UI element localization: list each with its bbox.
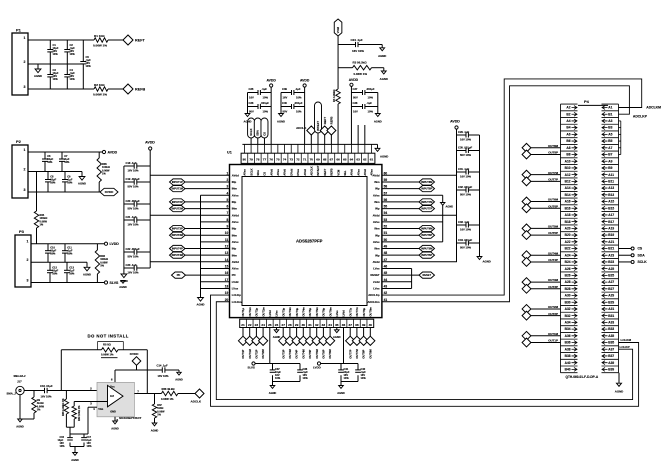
wire ground rail of cap column — [123, 166, 125, 274]
connector P4 right pin ladder — [602, 104, 619, 373]
svg-text:C16 .01μF: C16 .01μF — [40, 384, 53, 388]
svg-text:B36: B36 — [565, 341, 571, 345]
svg-text:A35: A35 — [608, 334, 614, 338]
wire AVDD to IC pin 76 — [270, 87, 272, 144]
svg-text:62: 62 — [363, 158, 367, 162]
svg-text:LCLKP: LCLKP — [620, 345, 630, 349]
svg-text:B22: B22 — [565, 247, 571, 251]
capacitor C26 .001uF — [248, 106, 259, 108]
svg-text:56: 56 — [384, 198, 388, 202]
svg-text:3: 3 — [227, 185, 229, 189]
svg-text:SDA: SDA — [256, 170, 260, 176]
svg-text:A12: A12 — [565, 173, 571, 177]
svg-text:INm: INm — [232, 187, 238, 191]
svg-text:17: 17 — [225, 278, 229, 282]
svg-text:ADCLKP: ADCLKP — [633, 114, 648, 118]
svg-text:10%: 10% — [67, 181, 73, 185]
ground AGND at P3 — [86, 262, 88, 267]
svg-text:3: 3 — [24, 85, 26, 89]
svg-text:1: 1 — [24, 36, 26, 40]
svg-text:26: 26 — [275, 323, 279, 327]
svg-text:C26: C26 — [249, 101, 254, 105]
svg-text:AVss: AVss — [232, 240, 239, 244]
node SCLK terminal at P4 — [619, 261, 632, 263]
capacitor C3 — [49, 64, 51, 75]
svg-text:CS: CS — [262, 132, 266, 136]
svg-text:C27: C27 — [353, 87, 358, 91]
svg-text:0.06W 1%: 0.06W 1% — [101, 352, 114, 356]
svg-text:16V 10%: 16V 10% — [128, 223, 140, 227]
svg-text:OUT7M: OUT7M — [355, 348, 359, 358]
node INPUT5M tag to IC pin 49 — [382, 248, 419, 250]
wire op-amp output — [134, 393, 161, 395]
node OUT7M diamond at IC pin 38 — [356, 328, 358, 337]
svg-text:B14: B14 — [565, 193, 571, 197]
resistor R36 between LVDD and SLVS rows — [96, 244, 98, 250]
svg-text:AVss: AVss — [232, 267, 239, 271]
node SLVS below IC — [252, 362, 255, 365]
svg-text:OUT1p: OUT1p — [241, 307, 245, 316]
svg-text:24: 24 — [261, 323, 265, 327]
wire AVDD rail to IC pin14 — [150, 261, 229, 263]
svg-text:.1μF: .1μF — [262, 87, 268, 91]
svg-text:A9: A9 — [608, 159, 612, 163]
svg-text:C32 .001μF: C32 .001μF — [458, 185, 473, 189]
svg-text:C39: C39 — [282, 87, 287, 91]
svg-text:50V: 50V — [353, 96, 358, 100]
svg-text:AGND: AGND — [337, 391, 345, 395]
wire IC pin 57 to right AGND bus — [382, 194, 443, 196]
svg-text:28: 28 — [288, 323, 292, 327]
svg-text:AVDD: AVDD — [349, 78, 359, 82]
capacitor C9 — [64, 172, 66, 180]
svg-text:REFB: REFB — [135, 88, 145, 92]
svg-text:AGND: AGND — [151, 429, 159, 433]
svg-text:14: 14 — [225, 258, 229, 262]
svg-text:RESET: RESET — [422, 273, 431, 277]
svg-text:72: 72 — [296, 158, 300, 162]
ground AGND at P1 pin2 — [37, 64, 39, 69]
wire IC pin 8 to AGND bus — [201, 221, 230, 223]
svg-text:OUT2p: OUT2p — [255, 307, 259, 316]
svg-text:INPUT8M: INPUT8M — [421, 180, 432, 184]
svg-text:OUT3P: OUT3P — [548, 285, 558, 289]
svg-text:AGND: AGND — [333, 335, 341, 339]
node INPUT2M tag to IC pin 6 — [170, 205, 186, 211]
svg-text:C18 .1μF: C18 .1μF — [126, 161, 138, 165]
node OUT5P diamond at P4 — [522, 231, 531, 240]
svg-text:AVdd: AVdd — [373, 213, 380, 217]
svg-text:75: 75 — [276, 158, 280, 162]
connector P4 right pin labels and arrows — [602, 106, 614, 372]
ground AGND for cap group 1 — [272, 382, 274, 386]
svg-text:23: 23 — [255, 323, 259, 327]
svg-text:1: 1 — [227, 171, 229, 175]
svg-text:A39: A39 — [608, 361, 614, 365]
svg-text:74: 74 — [283, 158, 287, 162]
svg-text:B31: B31 — [608, 314, 614, 318]
svg-text:CS: CS — [638, 247, 643, 251]
svg-text:R3 56.2kΩ: R3 56.2kΩ — [353, 61, 368, 65]
svg-text:OUT5M: OUT5M — [548, 224, 559, 228]
ground AGND at P2 — [81, 172, 83, 177]
svg-text:OUT8M: OUT8M — [368, 348, 372, 358]
svg-text:15: 15 — [225, 264, 229, 268]
svg-text:C20 .001μF: C20 .001μF — [126, 199, 141, 203]
capacitor C23 .1μF — [124, 267, 134, 269]
svg-text:B11: B11 — [608, 179, 614, 183]
svg-text:5: 5 — [227, 198, 229, 202]
svg-text:10%: 10% — [69, 271, 75, 275]
svg-text:20: 20 — [225, 298, 229, 302]
svg-text:B16: B16 — [565, 206, 571, 210]
svg-text:B33: B33 — [608, 327, 614, 331]
svg-text:16V 10%: 16V 10% — [158, 374, 170, 378]
ground AGND on right bus — [441, 203, 445, 206]
svg-text:76: 76 — [269, 158, 273, 162]
svg-text:10%: 10% — [52, 271, 58, 275]
wire P2 pin2 to P3 with resistor R34 — [36, 172, 38, 212]
svg-text:DVDD: DVDD — [130, 352, 139, 356]
svg-text:J17: J17 — [17, 380, 22, 384]
capacitor C39 .1uF — [281, 92, 292, 94]
node CS terminal at P4 — [619, 248, 632, 250]
capacitor C24 .1uF — [338, 44, 355, 46]
node INPUT1P tag to IC pin 2 — [170, 179, 186, 185]
svg-text:22: 22 — [248, 323, 252, 327]
svg-text:INp: INp — [232, 227, 237, 231]
svg-text:10%: 10% — [368, 96, 374, 100]
svg-text:Vbb: Vbb — [98, 407, 103, 411]
svg-text:REFT: REFT — [323, 168, 327, 175]
svg-text:LCLKM: LCLKM — [621, 338, 632, 342]
svg-text:77: 77 — [263, 158, 267, 162]
svg-text:U1: U1 — [227, 151, 232, 155]
svg-text:10%: 10% — [53, 77, 59, 81]
wire bottom cap group 2 rails — [344, 363, 359, 365]
svg-text:53: 53 — [384, 218, 388, 222]
svg-text:OUT3P: OUT3P — [281, 349, 285, 358]
svg-text:16V: 16V — [353, 110, 358, 114]
svg-text:REFT: REFT — [135, 39, 145, 43]
svg-text:66: 66 — [336, 158, 340, 162]
svg-text:A25: A25 — [608, 267, 614, 271]
svg-text:P2: P2 — [16, 139, 22, 144]
svg-text:A32: A32 — [565, 307, 571, 311]
wire C16 to op-amp input — [47, 390, 107, 392]
svg-text:1: 1 — [24, 148, 26, 152]
svg-text:.001μF: .001μF — [261, 101, 270, 105]
svg-text:PD: PD — [232, 273, 236, 277]
svg-text:10%: 10% — [361, 376, 367, 380]
svg-text:OUT5M: OUT5M — [315, 348, 319, 358]
wire P3 pin1 row to LVDD — [31, 243, 105, 245]
svg-text:A26: A26 — [565, 267, 571, 271]
svg-text:REFB: REFB — [329, 117, 333, 125]
svg-text:P1: P1 — [16, 28, 22, 33]
node OUT1M diamond at P4 — [522, 331, 531, 340]
svg-text:0.06W 1%: 0.06W 1% — [93, 93, 107, 97]
wire J17 to C16 — [24, 390, 44, 392]
svg-text:INp: INp — [232, 247, 237, 251]
svg-text:P3: P3 — [19, 229, 25, 234]
capacitor C17 .1uF — [81, 437, 87, 439]
svg-text:10%: 10% — [47, 160, 53, 164]
node OUT5P diamond at IC pin 31 — [309, 328, 311, 337]
svg-text:INPUT2M: INPUT2M — [172, 207, 183, 211]
node OUT3M diamond at IC pin 28 — [289, 328, 291, 337]
svg-text:OUT2P: OUT2P — [255, 349, 259, 358]
svg-text:16V 10%: 16V 10% — [352, 49, 364, 53]
svg-text:43: 43 — [384, 284, 388, 288]
svg-text:10%: 10% — [296, 110, 302, 114]
svg-text:10%: 10% — [70, 52, 76, 56]
ground AGND at IC pin 35 — [336, 328, 338, 330]
svg-text:AGND: AGND — [83, 272, 91, 276]
svg-text:52: 52 — [384, 225, 388, 229]
svg-text:10%: 10% — [263, 110, 269, 114]
svg-text:50V 10%: 50V 10% — [460, 153, 472, 157]
svg-text:18: 18 — [225, 284, 229, 288]
svg-text:A18: A18 — [565, 213, 571, 217]
svg-text:AVdd: AVdd — [283, 169, 287, 176]
svg-text:B15: B15 — [608, 206, 614, 210]
svg-text:AVss: AVss — [232, 193, 239, 197]
svg-text:OUT8M: OUT8M — [548, 144, 559, 148]
svg-text:ADS5287PFP: ADS5287PFP — [296, 238, 323, 243]
wire P3 pin2 row — [31, 261, 87, 263]
wire P2 pin3 row to DVDD — [28, 191, 100, 193]
svg-text:B23: B23 — [608, 260, 614, 264]
node OUT5M diamond at P4 — [522, 224, 531, 233]
resistor R5 feedback — [102, 348, 119, 352]
svg-text:67: 67 — [330, 158, 334, 162]
svg-text:B29: B29 — [608, 300, 614, 304]
svg-text:INm: INm — [374, 200, 380, 204]
svg-text:AGND: AGND — [380, 77, 388, 81]
svg-text:79: 79 — [249, 158, 253, 162]
node SCLK tag at IC pin 79 — [250, 138, 252, 144]
capacitor C16 coupling — [44, 388, 46, 393]
svg-text:B20: B20 — [565, 233, 571, 237]
svg-text:LVDD: LVDD — [110, 242, 120, 246]
svg-text:SCLK: SCLK — [249, 128, 253, 135]
svg-text:68: 68 — [323, 158, 327, 162]
node OUT8P diamond at P4 — [522, 150, 531, 159]
svg-text:INm: INm — [232, 253, 238, 257]
svg-text:54: 54 — [384, 211, 388, 215]
node OUT6M diamond at IC pin 34 — [329, 328, 331, 337]
svg-text:33: 33 — [322, 323, 326, 327]
svg-text:25: 25 — [268, 323, 272, 327]
svg-text:A19: A19 — [608, 226, 614, 230]
svg-text:OUT5P: OUT5P — [548, 231, 558, 235]
svg-text:AVdd: AVdd — [232, 260, 239, 264]
svg-text:OUT1P: OUT1P — [548, 339, 558, 343]
svg-text:A29: A29 — [608, 294, 614, 298]
svg-text:SDA: SDA — [638, 253, 646, 257]
node OUT7P diamond at P4 — [522, 177, 531, 186]
svg-text:B24: B24 — [565, 260, 571, 264]
svg-text:C31 .1μF: C31 .1μF — [458, 167, 470, 171]
svg-text:INPUT5P: INPUT5P — [421, 253, 432, 257]
svg-text:INT/EXT: INT/EXT — [316, 121, 320, 131]
svg-text:30: 30 — [302, 323, 306, 327]
capacitor C14 .1uF — [161, 367, 163, 372]
svg-text:A2: A2 — [566, 106, 570, 110]
node ADCLK diamond at IC pin 70 — [310, 135, 312, 144]
svg-text:LVdd: LVdd — [268, 310, 272, 317]
svg-text:OUT1m: OUT1m — [248, 306, 252, 316]
svg-text:12: 12 — [225, 245, 229, 249]
ground AGND at op-amp GND pin — [114, 417, 116, 421]
svg-text:10%: 10% — [86, 64, 92, 68]
svg-text:DVDD: DVDD — [105, 190, 114, 194]
svg-text:ADCLKp: ADCLKp — [368, 293, 380, 297]
svg-text:U2: U2 — [110, 394, 114, 398]
svg-text:OUT2M: OUT2M — [261, 348, 265, 358]
svg-text:LCLKp: LCLKp — [232, 293, 241, 297]
wire R66 to ADCLK — [178, 393, 195, 395]
svg-text:.001μF: .001μF — [294, 101, 303, 105]
svg-text:50V 10%: 50V 10% — [128, 255, 140, 259]
capacitor C1 — [49, 40, 51, 50]
svg-text:OUT7m: OUT7m — [355, 306, 359, 316]
svg-text:A16: A16 — [565, 200, 571, 204]
node OUT2P diamond at P4 — [522, 311, 531, 320]
svg-text:OUT1P: OUT1P — [241, 349, 245, 358]
svg-text:C40: C40 — [282, 101, 287, 105]
svg-text:A21: A21 — [608, 240, 614, 244]
node REFT — [123, 35, 133, 45]
wire feedback vertical left — [60, 350, 62, 391]
node INPUT8M tag to IC pin 59 — [382, 181, 419, 183]
svg-text:C30 .001μF: C30 .001μF — [458, 145, 473, 149]
svg-text:B35: B35 — [608, 341, 614, 345]
svg-text:B34: B34 — [565, 327, 571, 331]
node RESET tag to IC pin 45 — [382, 274, 419, 276]
wire C39/C40 ground rail — [280, 93, 282, 114]
svg-text:0.06W 1%: 0.06W 1% — [354, 72, 368, 76]
svg-text:AVDD: AVDD — [108, 150, 118, 154]
svg-text:10%: 10% — [50, 181, 56, 185]
node INPUT5P tag to IC pin 48 — [382, 254, 419, 256]
svg-text:B28: B28 — [565, 287, 571, 291]
ground AGND for R3 — [383, 68, 385, 71]
svg-text:INp: INp — [375, 253, 380, 257]
capacitor C19 .001μF — [124, 181, 134, 183]
node OUT3M diamond at P4 — [522, 278, 531, 287]
wire C25/C26 ground rail — [247, 93, 249, 114]
svg-text:60: 60 — [384, 171, 388, 175]
svg-text:SEL: SEL — [343, 170, 347, 176]
svg-text:AVss: AVss — [243, 169, 247, 176]
svg-text:INPUT6M: INPUT6M — [421, 227, 432, 231]
svg-text:47: 47 — [384, 258, 388, 262]
svg-text:73: 73 — [290, 158, 294, 162]
svg-text:AVdd: AVdd — [363, 169, 367, 176]
node SDA terminal at P4 — [619, 254, 632, 256]
svg-text:A34: A34 — [565, 320, 571, 324]
ground AGND for C24 — [381, 45, 383, 48]
svg-text:INPUT4M: INPUT4M — [172, 253, 183, 257]
node OUT4M diamond at P4 — [522, 251, 531, 260]
svg-text:51: 51 — [384, 231, 388, 235]
wire DNI bracket around R5 — [98, 342, 124, 350]
svg-text:OUT6P: OUT6P — [322, 349, 326, 358]
node INPUT3M tag to IC pin 10 — [170, 232, 186, 238]
capacitor C32 .001μF — [457, 189, 467, 191]
svg-text:10: 10 — [225, 231, 229, 235]
svg-text:OUT6p: OUT6p — [322, 307, 326, 316]
capacitor C13 — [66, 262, 68, 270]
svg-text:37: 37 — [348, 323, 352, 327]
svg-text:10%: 10% — [368, 110, 374, 114]
node SDA tag at IC pin 78 — [257, 138, 259, 144]
svg-text:AGND: AGND — [16, 425, 24, 429]
node OUT7M diamond at P4 — [522, 170, 531, 179]
svg-text:36: 36 — [342, 323, 346, 327]
svg-text:9: 9 — [227, 225, 229, 229]
connector P1 — [12, 33, 28, 95]
svg-text:AGND: AGND — [378, 54, 386, 58]
ground AGND for C39/C40 — [279, 114, 284, 117]
svg-text:AGND: AGND — [374, 120, 382, 124]
capacitor C27 .001uF — [351, 92, 362, 94]
capacitor C40 .001uF — [281, 106, 292, 108]
svg-text:10%: 10% — [67, 252, 73, 256]
svg-text:AGND: AGND — [483, 260, 491, 264]
svg-text:A14: A14 — [565, 186, 571, 190]
svg-text:16V: 16V — [283, 96, 288, 100]
svg-text:B1: B1 — [608, 112, 612, 116]
svg-text:10%: 10% — [64, 160, 70, 164]
svg-text:OUT1M: OUT1M — [548, 332, 559, 336]
svg-text:50V 10%: 50V 10% — [128, 207, 140, 211]
svg-text:B5: B5 — [608, 139, 612, 143]
resistor R2 10 ohm — [94, 87, 108, 91]
node INPUT7M tag to IC pin 56 — [382, 201, 419, 203]
svg-text:OUT6P: OUT6P — [548, 204, 558, 208]
capacitor C4 — [66, 64, 68, 75]
node OUT7P diamond at IC pin 37 — [349, 328, 351, 337]
node OUT8P diamond at IC pin 39 — [363, 328, 365, 337]
svg-text:R2 10Ω: R2 10Ω — [94, 83, 105, 87]
svg-text:SLVS: SLVS — [248, 366, 255, 370]
svg-text:OUT3p: OUT3p — [281, 307, 285, 316]
svg-text:R68 4.99kΩ 1%: R68 4.99kΩ 1% — [62, 398, 65, 416]
svg-text:B40: B40 — [565, 367, 571, 371]
resistor R1 10 ohm — [94, 38, 108, 42]
svg-text:R1 10Ω: R1 10Ω — [94, 34, 105, 38]
svg-text:A23: A23 — [608, 253, 614, 257]
svg-text:INp: INp — [375, 207, 380, 211]
node REFB — [123, 84, 133, 94]
svg-text:P4: P4 — [584, 99, 590, 104]
svg-text:AVDD: AVDD — [300, 79, 310, 83]
svg-text:31: 31 — [308, 323, 312, 327]
svg-text:OUT3M: OUT3M — [548, 278, 559, 282]
svg-text:10%: 10% — [60, 445, 66, 448]
node OUT6M diamond at P4 — [522, 197, 531, 206]
svg-text:A4: A4 — [566, 119, 570, 123]
capacitor C20 .001μF — [124, 203, 134, 205]
svg-text:AGND: AGND — [277, 120, 285, 124]
svg-text:LVss: LVss — [275, 310, 279, 317]
svg-text:B4: B4 — [566, 126, 570, 130]
wire IC pin 53 to right AGND bus — [382, 221, 443, 223]
svg-text:INm: INm — [232, 207, 238, 211]
